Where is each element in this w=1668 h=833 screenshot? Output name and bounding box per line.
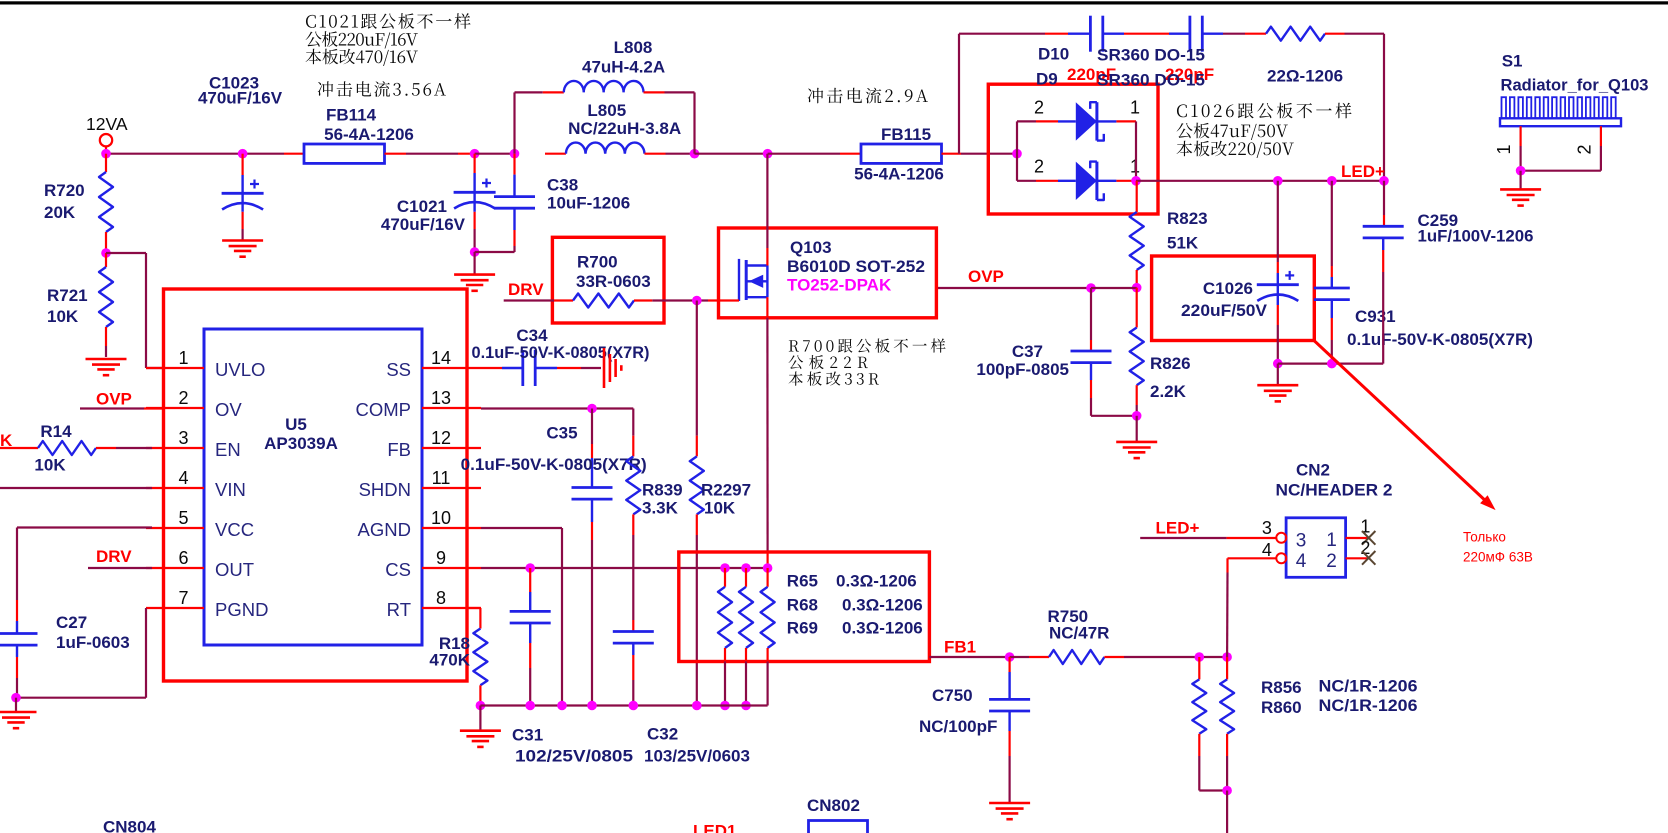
svg-text:LED+: LED+ [1156, 519, 1200, 538]
svg-text:3.3K: 3.3K [642, 499, 679, 518]
capacitor C32 [613, 535, 750, 766]
svg-text:C931: C931 [1355, 307, 1396, 326]
svg-text:VIN: VIN [215, 479, 246, 500]
svg-text:33R-0603: 33R-0603 [576, 272, 651, 291]
ground S1 [1500, 171, 1541, 206]
svg-text:12VA: 12VA [86, 114, 128, 134]
svg-text:OV: OV [215, 399, 242, 420]
wire VIN from edge [0, 487, 152, 489]
svg-text:FB115: FB115 [881, 125, 931, 144]
svg-text:103/25V/0603: 103/25V/0603 [644, 747, 750, 766]
svg-text:PGND: PGND [215, 599, 268, 620]
svg-text:SR360 DO-15: SR360 DO-15 [1097, 71, 1205, 90]
svg-text:0.3Ω-1206: 0.3Ω-1206 [836, 572, 917, 591]
connector CN802 partial [809, 821, 868, 833]
wire L808 branch left [515, 92, 564, 153]
svg-text:RT: RT [387, 599, 411, 620]
svg-text:D10: D10 [1038, 45, 1069, 64]
svg-text:10: 10 [431, 508, 451, 528]
wire CS rail [481, 567, 768, 569]
wire cap220pF-1 left stub [1045, 33, 1090, 35]
svg-text:C31: C31 [512, 726, 543, 745]
resistor 22ohm-1206 [1266, 27, 1343, 86]
svg-text:14: 14 [431, 348, 451, 368]
svg-text:220uF/50V: 220uF/50V [1181, 301, 1268, 320]
svg-text:R2297: R2297 [701, 481, 751, 500]
svg-text:R839: R839 [642, 481, 683, 500]
wire L805 right stub [645, 153, 666, 155]
junction LED+ C931 [1327, 176, 1337, 186]
svg-text:NC/1R-1206: NC/1R-1206 [1319, 677, 1418, 696]
svg-text:2: 2 [1326, 551, 1337, 572]
wire diode anode bus [1016, 121, 1018, 180]
note C1026 difference line1 [1177, 103, 1352, 119]
wire R720 bottom stub [105, 232, 107, 253]
wire between caps [1103, 33, 1190, 35]
junction CS/C31 [525, 563, 535, 573]
resistor R18 [429, 608, 487, 706]
svg-text:220мФ 63В: 220мФ 63В [1463, 550, 1533, 565]
wire Q103 gate stub [708, 299, 739, 301]
pin 12 FB [387, 428, 481, 460]
wire Q103 source [766, 297, 768, 568]
svg-text:Radiator_for_Q103: Radiator_for_Q103 [1501, 75, 1649, 94]
pin 2 OV [146, 388, 242, 420]
border frame top line [0, 1, 1668, 4]
pin 10 AGND [358, 508, 481, 540]
label R69 [787, 619, 923, 638]
wire PGND [16, 608, 146, 698]
svg-text:56-4A-1206: 56-4A-1206 [854, 165, 944, 184]
svg-text:1uF-0603: 1uF-0603 [56, 633, 130, 652]
resistor R720 [44, 172, 113, 232]
net label FB1 [944, 638, 976, 657]
junction OVP/C37 [1086, 283, 1096, 293]
highlight box R65 group [679, 552, 930, 662]
ground PGND [0, 698, 37, 729]
junction R68 bottom [741, 701, 751, 711]
svg-text:C37: C37 [1012, 342, 1043, 361]
svg-text:R860: R860 [1261, 698, 1302, 717]
svg-text:470uF/16V: 470uF/16V [198, 89, 283, 108]
wire OVP to R826 [1091, 287, 1137, 289]
wire FB115 to diodes [961, 153, 1017, 155]
svg-text:UVLO: UVLO [215, 359, 265, 380]
wire COMP [481, 407, 633, 409]
junction R65 bottom [720, 701, 730, 711]
svg-text:LED1: LED1 [693, 822, 736, 833]
svg-text:C27: C27 [56, 613, 87, 632]
wire FB115 right stub [942, 153, 962, 155]
pin 1 UVLO [146, 348, 265, 380]
svg-text:DRV: DRV [96, 547, 132, 566]
capacitor C1026 [1181, 181, 1299, 364]
wire AGND drop [481, 528, 562, 706]
junction R720/R721 [101, 248, 111, 258]
junction LED+ C259 [1379, 176, 1389, 186]
junction C1026 gnd [1273, 359, 1283, 369]
wire rail seg4 [666, 153, 695, 155]
svg-text:AP3039A: AP3039A [264, 434, 338, 453]
wire 22ohm to LED+ corner [1325, 34, 1384, 181]
resistor R14 [0, 422, 152, 475]
svg-text:CN802: CN802 [807, 796, 860, 815]
junction R69 top [763, 563, 773, 573]
callout arrow to C1026 [1314, 341, 1496, 511]
svg-text:6: 6 [178, 548, 188, 568]
net label OVP [968, 267, 1004, 286]
svg-text:2: 2 [1034, 157, 1044, 177]
svg-text:2: 2 [178, 388, 188, 408]
svg-text:R826: R826 [1150, 354, 1191, 373]
svg-text:100pF-0805: 100pF-0805 [976, 360, 1069, 379]
junction OVP/R823 [1132, 283, 1142, 293]
pin CN2-2 stub [1346, 538, 1376, 565]
ground R721 [86, 359, 127, 375]
capacitor C1023 [198, 74, 283, 241]
resistor R823 [1130, 181, 1208, 288]
label D9 [1036, 70, 1205, 90]
note Tolko line1 [1463, 530, 1506, 545]
junction C38/L tap [510, 149, 520, 159]
svg-text:FB1: FB1 [944, 638, 976, 657]
highlight box Q103 [719, 228, 937, 318]
capacitor C31 [510, 568, 633, 766]
svg-text:4: 4 [1262, 540, 1272, 560]
net label DRV pin6 [88, 547, 152, 568]
svg-text:R14: R14 [40, 422, 72, 441]
junction R2297 bottom [692, 701, 702, 711]
svg-text:R823: R823 [1167, 209, 1208, 228]
svg-text:3: 3 [178, 428, 188, 448]
pin circle CN2-3 [1276, 533, 1286, 543]
resistor R65 [718, 568, 732, 706]
pin S1-2 [1574, 126, 1601, 154]
pin 4 VIN [146, 468, 246, 500]
svg-text:47uH-4.2A: 47uH-4.2A [582, 58, 665, 77]
svg-text:AGND: AGND [358, 519, 411, 540]
junction diode anode node [1012, 149, 1022, 159]
svg-text:R856: R856 [1261, 678, 1302, 697]
terminal 12VA [100, 134, 112, 150]
wire VCC [17, 528, 152, 601]
svg-text:11: 11 [432, 468, 451, 488]
label U5 [264, 415, 338, 453]
svg-text:470uF/16V: 470uF/16V [381, 215, 466, 234]
pin 9 CS [385, 548, 481, 580]
svg-text:10K: 10K [34, 456, 66, 475]
svg-text:D9: D9 [1036, 70, 1058, 89]
pin 8 RT [387, 588, 481, 620]
note C1026 difference line2 [1177, 123, 1288, 140]
junction C1023 tap [238, 149, 248, 159]
junction R860 top [1222, 652, 1232, 662]
svg-text:FB: FB [387, 439, 411, 460]
svg-text:102/25V/0805: 102/25V/0805 [515, 747, 633, 766]
ground R826 [1116, 416, 1157, 458]
junction Q103 drain tap [763, 149, 773, 159]
svg-text:U5: U5 [285, 415, 307, 434]
note R700 difference line1 [789, 338, 946, 352]
note R700 difference line3 [789, 371, 879, 385]
svg-text:20K: 20K [44, 203, 76, 222]
junction C35 bottom [587, 701, 597, 711]
note inrush current 3.56A [318, 81, 446, 97]
svg-text:NC/100pF: NC/100pF [919, 717, 997, 736]
pin number CN2-4 [1262, 540, 1272, 560]
svg-text:4: 4 [1296, 551, 1307, 572]
junction R68 top [741, 563, 751, 573]
ground SS sideways [604, 348, 621, 388]
svg-text:1: 1 [1130, 97, 1140, 117]
svg-text:FB114: FB114 [326, 106, 377, 125]
pin CN2-1 stub [1346, 517, 1376, 545]
wire R700 to gate [652, 299, 708, 301]
diode D9 [1017, 157, 1140, 200]
svg-text:0.1uF-50V-K-0805(X7R): 0.1uF-50V-K-0805(X7R) [1347, 330, 1533, 349]
note C1021 difference line1 [306, 13, 471, 29]
svg-text:LED+: LED+ [1341, 162, 1385, 181]
label R68 [787, 596, 923, 615]
net label LED+ CN2 [1156, 519, 1200, 538]
resistor R826 [1130, 288, 1191, 416]
note inrush current 2.9A [808, 88, 928, 104]
wire UVLO from divider [106, 253, 164, 368]
capacitor C34 [472, 326, 650, 386]
svg-text:470K: 470K [429, 651, 470, 670]
svg-text:NC/HEADER 2: NC/HEADER 2 [1276, 481, 1393, 500]
label CN2 [1276, 461, 1393, 500]
capacitor C1021 [381, 154, 496, 252]
resistor R68 [739, 568, 753, 706]
svg-text:R721: R721 [47, 286, 88, 305]
svg-text:1uF/100V-1206: 1uF/100V-1206 [1418, 227, 1534, 246]
inductor L805 [566, 101, 681, 154]
svg-text:R700: R700 [577, 253, 618, 272]
label S1 [1501, 52, 1649, 95]
svg-text:TO252-DPAK: TO252-DPAK [787, 276, 892, 295]
svg-text:SHDN: SHDN [359, 479, 411, 500]
label D10 [1038, 45, 1205, 65]
junction C32 bottom [629, 701, 639, 711]
wire FB115 left stub [840, 153, 861, 155]
svg-text:VCC: VCC [215, 519, 254, 540]
pin 7 PGND [146, 588, 268, 620]
wire rail seg6 [768, 153, 840, 155]
svg-text:C1026: C1026 [1203, 279, 1253, 298]
ferrite bead FB115 [854, 125, 944, 184]
resistor R860 [1220, 657, 1234, 791]
pin S1-1 [1494, 126, 1521, 154]
svg-text:3: 3 [1296, 531, 1307, 552]
svg-text:EN: EN [215, 439, 241, 460]
wire R750 to R856 [1124, 656, 1227, 658]
svg-text:SR360 DO-15: SR360 DO-15 [1097, 46, 1205, 65]
svg-text:CS: CS [385, 559, 411, 580]
wire 12VA rail seg1 [106, 153, 284, 155]
diode D10 [1017, 97, 1140, 140]
connector CN2 body [1286, 518, 1346, 578]
note C1021 difference line2 [306, 31, 418, 48]
ground C1026 [1257, 364, 1298, 402]
wire OVP [936, 287, 1091, 289]
svg-text:22Ω-1206: 22Ω-1206 [1267, 66, 1343, 85]
junction cathode/LED+ [1131, 176, 1141, 186]
note R700 difference line2 [789, 355, 868, 369]
note C1021 difference line3 [306, 49, 418, 66]
resistor R839 [626, 409, 682, 536]
junction C31 bottom [525, 701, 535, 711]
resistor R700 [554, 294, 652, 308]
svg-text:10uF-1206: 10uF-1206 [547, 194, 630, 213]
svg-text:CN2: CN2 [1296, 461, 1330, 480]
junction R856 top [1195, 652, 1205, 662]
wire rail seg5 [695, 153, 768, 155]
svg-text:51K: 51K [1167, 234, 1199, 253]
capacitor C259 [1363, 181, 1534, 364]
svg-text:S1: S1 [1502, 52, 1523, 71]
svg-text:2.2K: 2.2K [1150, 382, 1187, 401]
resistor R2297 [690, 301, 751, 706]
wire R720 top stub [105, 154, 107, 172]
junction L right [690, 149, 700, 159]
wire bottom gnd rail [480, 704, 767, 706]
label Q103 [787, 238, 925, 295]
pin 11 SHDN [359, 468, 481, 500]
wire to bottom edge [1226, 791, 1228, 833]
svg-text:C35: C35 [546, 424, 577, 443]
pin 6 OUT [146, 548, 254, 580]
svg-text:5: 5 [178, 508, 188, 528]
transistor Q103 [739, 259, 767, 301]
ferrite bead FB114 [304, 106, 414, 164]
svg-text:C38: C38 [547, 176, 578, 195]
wire FB114 right stub [385, 153, 407, 155]
pin 13 COMP [356, 388, 482, 420]
wire CN2 pin4 down [1227, 558, 1276, 657]
highlight box C1026 [1152, 256, 1315, 341]
net label OVP pin2 [80, 390, 164, 409]
svg-text:10K: 10K [704, 499, 736, 518]
svg-text:Q103: Q103 [790, 238, 832, 257]
pin 5 VCC [146, 508, 254, 540]
svg-text:R720: R720 [44, 181, 85, 200]
svg-text:OUT: OUT [215, 559, 254, 580]
svg-text:C32: C32 [647, 725, 678, 744]
wire diode cathode bus [1135, 121, 1137, 180]
net label K edge [0, 431, 13, 450]
capacitor 220pF second [1165, 16, 1214, 84]
svg-text:SS: SS [386, 359, 411, 380]
svg-text:Только: Только [1463, 530, 1506, 545]
note Tolko line2 [1463, 550, 1533, 565]
svg-text:R68: R68 [787, 596, 818, 615]
svg-text:CN804: CN804 [103, 818, 156, 833]
svg-text:NC/22uH-3.8A: NC/22uH-3.8A [568, 119, 681, 138]
junction S1 gnd [1516, 166, 1526, 176]
svg-text:C1021: C1021 [397, 197, 447, 216]
pin 14 SS [386, 348, 481, 380]
svg-text:0.1uF-50V-K-0805(X7R): 0.1uF-50V-K-0805(X7R) [472, 343, 650, 362]
junction R826 foot [1132, 411, 1142, 421]
inductor L808 [564, 38, 665, 92]
capacitor C750 [919, 657, 1030, 803]
svg-text:R65: R65 [787, 572, 818, 591]
junction R18 gnd [476, 701, 486, 711]
svg-text:2: 2 [1034, 97, 1044, 117]
junction C1021 tap [470, 149, 480, 159]
wire FB114 left stub [284, 153, 304, 155]
wire rail seg3 [475, 153, 515, 155]
junction gate node [692, 296, 702, 306]
svg-text:0.1uF-50V-K-0805(X7R): 0.1uF-50V-K-0805(X7R) [461, 455, 647, 474]
label CN802 [807, 796, 860, 815]
svg-text:10K: 10K [47, 307, 79, 326]
svg-text:1: 1 [178, 348, 188, 368]
net label DRV gate [508, 280, 544, 299]
ground C750 [989, 803, 1030, 819]
resistor R69 [761, 568, 775, 706]
wire rail seg2 [406, 153, 475, 155]
wire LED+ to CN2 [1140, 537, 1276, 539]
svg-text:0.3Ω-1206: 0.3Ω-1206 [842, 596, 923, 615]
svg-text:OVP: OVP [96, 390, 132, 409]
wire S1 pins to gnd [1521, 146, 1601, 171]
svg-text:3: 3 [1262, 518, 1272, 538]
svg-text:1: 1 [1326, 530, 1337, 551]
pin number CN2-3 [1262, 518, 1272, 538]
svg-text:COMP: COMP [356, 399, 412, 420]
svg-text:1: 1 [1494, 144, 1514, 154]
junction COMP/C35 [587, 404, 597, 414]
svg-text:OVP: OVP [968, 267, 1004, 286]
capacitor C38 [475, 154, 631, 252]
svg-text:13: 13 [431, 388, 451, 408]
svg-text:NC/1R-1206: NC/1R-1206 [1319, 696, 1418, 715]
svg-text:7: 7 [178, 588, 188, 608]
junction LED+ C1026 [1273, 176, 1283, 186]
junction PGND gnd [11, 693, 21, 703]
label R856 [1261, 677, 1418, 698]
wire snubber riser [959, 34, 1045, 154]
junction FB1/C750 [1005, 652, 1015, 662]
label LED1 partial [693, 822, 736, 833]
svg-text:2: 2 [1574, 144, 1594, 154]
net label 12VA [86, 114, 128, 134]
resistor R721 [47, 253, 113, 357]
wire L805 left stub [545, 153, 566, 155]
capacitor C931 [1314, 181, 1533, 364]
svg-text:4: 4 [178, 468, 188, 488]
resistor R856 [1192, 657, 1227, 791]
label R65 [787, 572, 917, 591]
wire FB1 [929, 656, 1009, 658]
ground C1023 [222, 241, 263, 257]
svg-text:C750: C750 [932, 686, 973, 705]
heatsink S1 [1500, 97, 1621, 126]
svg-text:DRV: DRV [508, 280, 544, 299]
svg-text:9: 9 [436, 548, 446, 568]
capacitor 220pF first [1067, 16, 1116, 84]
ground C1021 [454, 252, 495, 291]
wire DRV [504, 299, 554, 301]
net label LED+ [1341, 162, 1385, 181]
junction R65 top [720, 563, 730, 573]
wire C37 to R826 foot [1091, 415, 1137, 417]
capacitor C27 [0, 600, 130, 698]
junction C1021/C38 ground node [470, 247, 480, 257]
svg-text:L808: L808 [614, 38, 653, 57]
